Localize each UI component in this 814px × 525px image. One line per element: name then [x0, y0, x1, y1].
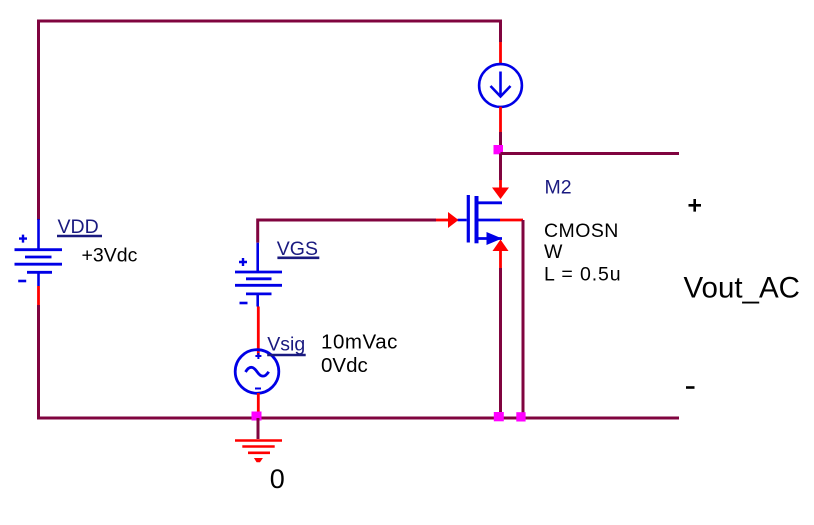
- VGS source V2: wire down from gate corner maroon: [256, 219, 259, 243]
- ground stem maroon: [257, 418, 260, 439]
- VDD bottom lead blue: [37, 272, 40, 286]
- gate wire red segment: [436, 219, 449, 222]
- current source arrow head chevron: [491, 86, 511, 97]
- Vsig small minus: [255, 388, 261, 390]
- VDD bottom lead red segment: [37, 286, 40, 305]
- label VGS underline: [277, 256, 319, 259]
- mosfet source arrow head blue: [487, 232, 503, 245]
- label VDD underline: [57, 235, 102, 238]
- wire left vertical down to VDD +: [37, 20, 40, 220]
- ground bar 2: [242, 445, 274, 448]
- VDD plus sign: [19, 235, 27, 243]
- junction dot node source bottom: [494, 412, 504, 421]
- gate current red arrow head: [448, 212, 459, 228]
- current source circle: [479, 64, 522, 107]
- VGS plate 1 long: [235, 271, 282, 274]
- svg-text:W: W: [544, 241, 563, 263]
- source current red arrow head: [493, 240, 509, 252]
- VGS top lead blue: [256, 243, 259, 272]
- ground bar 3: [248, 451, 270, 454]
- svg-text:+3Vdc: +3Vdc: [82, 245, 138, 267]
- output plus sign: [689, 199, 702, 212]
- svg-text:Vout_AC: Vout_AC: [684, 272, 800, 305]
- current source top red lead: [499, 42, 502, 65]
- VDD source V1: top lead: [37, 219, 40, 250]
- current source I1: top maroon lead: [499, 20, 502, 42]
- mosfet bulk lead red segment: [500, 219, 523, 222]
- source red vertical lead: [499, 250, 502, 268]
- label Vsig underline: [267, 354, 306, 357]
- current source arrow shaft: [499, 72, 502, 97]
- svg-text:L = 0.5u: L = 0.5u: [544, 264, 622, 286]
- VDD plate 1 long: [15, 248, 63, 251]
- VGS plate 4 short: [246, 292, 272, 295]
- Vsig source V3: circle: [235, 350, 279, 394]
- VGS minus sign: [240, 302, 248, 305]
- wire bulk vertical maroon: [522, 220, 525, 418]
- wire bottom bus: [37, 417, 679, 420]
- Vsig small plus: [255, 353, 261, 359]
- ground bar 1: [235, 439, 282, 442]
- wire top horizontal VDD to current source: [37, 20, 502, 23]
- svg-text:Vsig: Vsig: [267, 333, 305, 355]
- svg-text:CMOSN: CMOSN: [544, 220, 619, 242]
- VGS bottom lead blue: [256, 294, 259, 307]
- VDD plate 3 long: [15, 263, 63, 266]
- svg-text:0Vdc: 0Vdc: [321, 354, 368, 377]
- VGS plate 3 long: [235, 284, 282, 287]
- mosfet drain lead: [477, 201, 503, 204]
- mosfet M2 channel bar: [475, 196, 479, 243]
- junction dot node drain top: [494, 145, 504, 154]
- Vsig bottom red lead: [257, 393, 260, 414]
- svg-text:VDD: VDD: [58, 216, 99, 238]
- mosfet gate lead: [458, 219, 467, 222]
- drain current red arrow shaft: [499, 180, 502, 189]
- wire source vertical maroon: [499, 268, 502, 418]
- ground bar 4 nub: [254, 458, 263, 462]
- VDD plate 4 short: [27, 271, 52, 274]
- Vsig sine wave: [246, 367, 269, 376]
- svg-text:M2: M2: [545, 177, 572, 199]
- VGS plate 2 short: [246, 277, 272, 280]
- junction dot node bulk bottom: [516, 412, 525, 421]
- svg-text:0: 0: [270, 464, 285, 494]
- svg-text:10mVac: 10mVac: [321, 331, 398, 354]
- drain current red arrow head: [492, 188, 509, 200]
- mosfet M2 gate bar: [467, 195, 470, 243]
- wire drain vertical maroon: [499, 154, 502, 181]
- wire left vertical below VDD: [37, 305, 40, 420]
- wire top right to output: [501, 152, 680, 155]
- mosfet bulk lead blue: [477, 219, 501, 222]
- VGS to Vsig red lead: [257, 307, 260, 358]
- mosfet source lead: [477, 237, 503, 240]
- output minus sign: [686, 386, 695, 389]
- VDD plate 2 short: [25, 256, 52, 259]
- VGS plus sign: [239, 258, 247, 266]
- current source bottom red lead: [499, 107, 502, 132]
- gate wire maroon from VGS: [258, 219, 436, 222]
- VDD minus sign: [18, 280, 26, 283]
- junction dot node Vsig bottom: [252, 412, 262, 421]
- current source bottom maroon lead: [499, 132, 502, 153]
